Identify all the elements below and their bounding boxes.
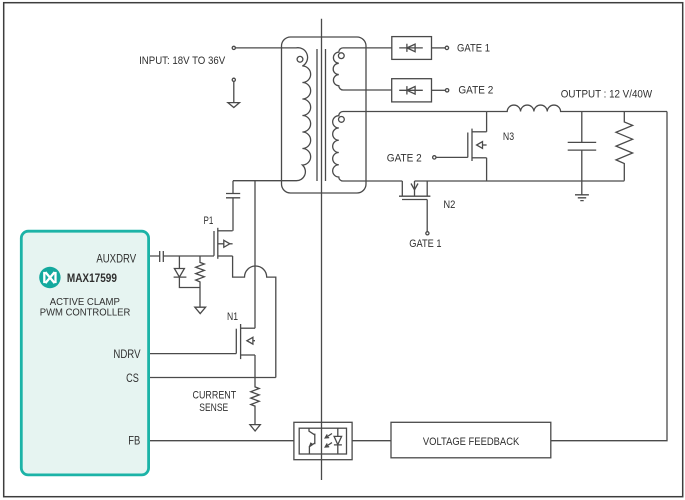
svg-text:N1: N1 <box>227 311 238 323</box>
svg-text:NDRV: NDRV <box>113 348 140 361</box>
svg-text:AUXDRV: AUXDRV <box>96 253 136 266</box>
svg-text:P1: P1 <box>204 215 214 227</box>
svg-text:MAX17599: MAX17599 <box>67 272 117 285</box>
svg-text:CS: CS <box>126 372 139 385</box>
svg-text:N3: N3 <box>503 131 514 143</box>
svg-text:VOLTAGE FEEDBACK: VOLTAGE FEEDBACK <box>423 436 520 448</box>
svg-text:GATE 1: GATE 1 <box>409 238 441 250</box>
svg-text:FB: FB <box>128 435 140 448</box>
svg-text:INPUT: 18V TO 36V: INPUT: 18V TO 36V <box>139 55 226 67</box>
svg-text:SENSE: SENSE <box>199 402 228 414</box>
svg-text:OUTPUT : 12 V/40W: OUTPUT : 12 V/40W <box>561 88 653 100</box>
svg-text:PWM CONTROLLER: PWM CONTROLLER <box>40 308 131 319</box>
svg-text:CURRENT: CURRENT <box>193 390 237 402</box>
svg-text:GATE 2: GATE 2 <box>458 85 493 97</box>
svg-text:GATE 1: GATE 1 <box>457 42 490 54</box>
svg-text:N2: N2 <box>443 199 455 211</box>
svg-text:ACTIVE CLAMP: ACTIVE CLAMP <box>50 297 121 308</box>
svg-text:GATE 2: GATE 2 <box>387 152 422 164</box>
